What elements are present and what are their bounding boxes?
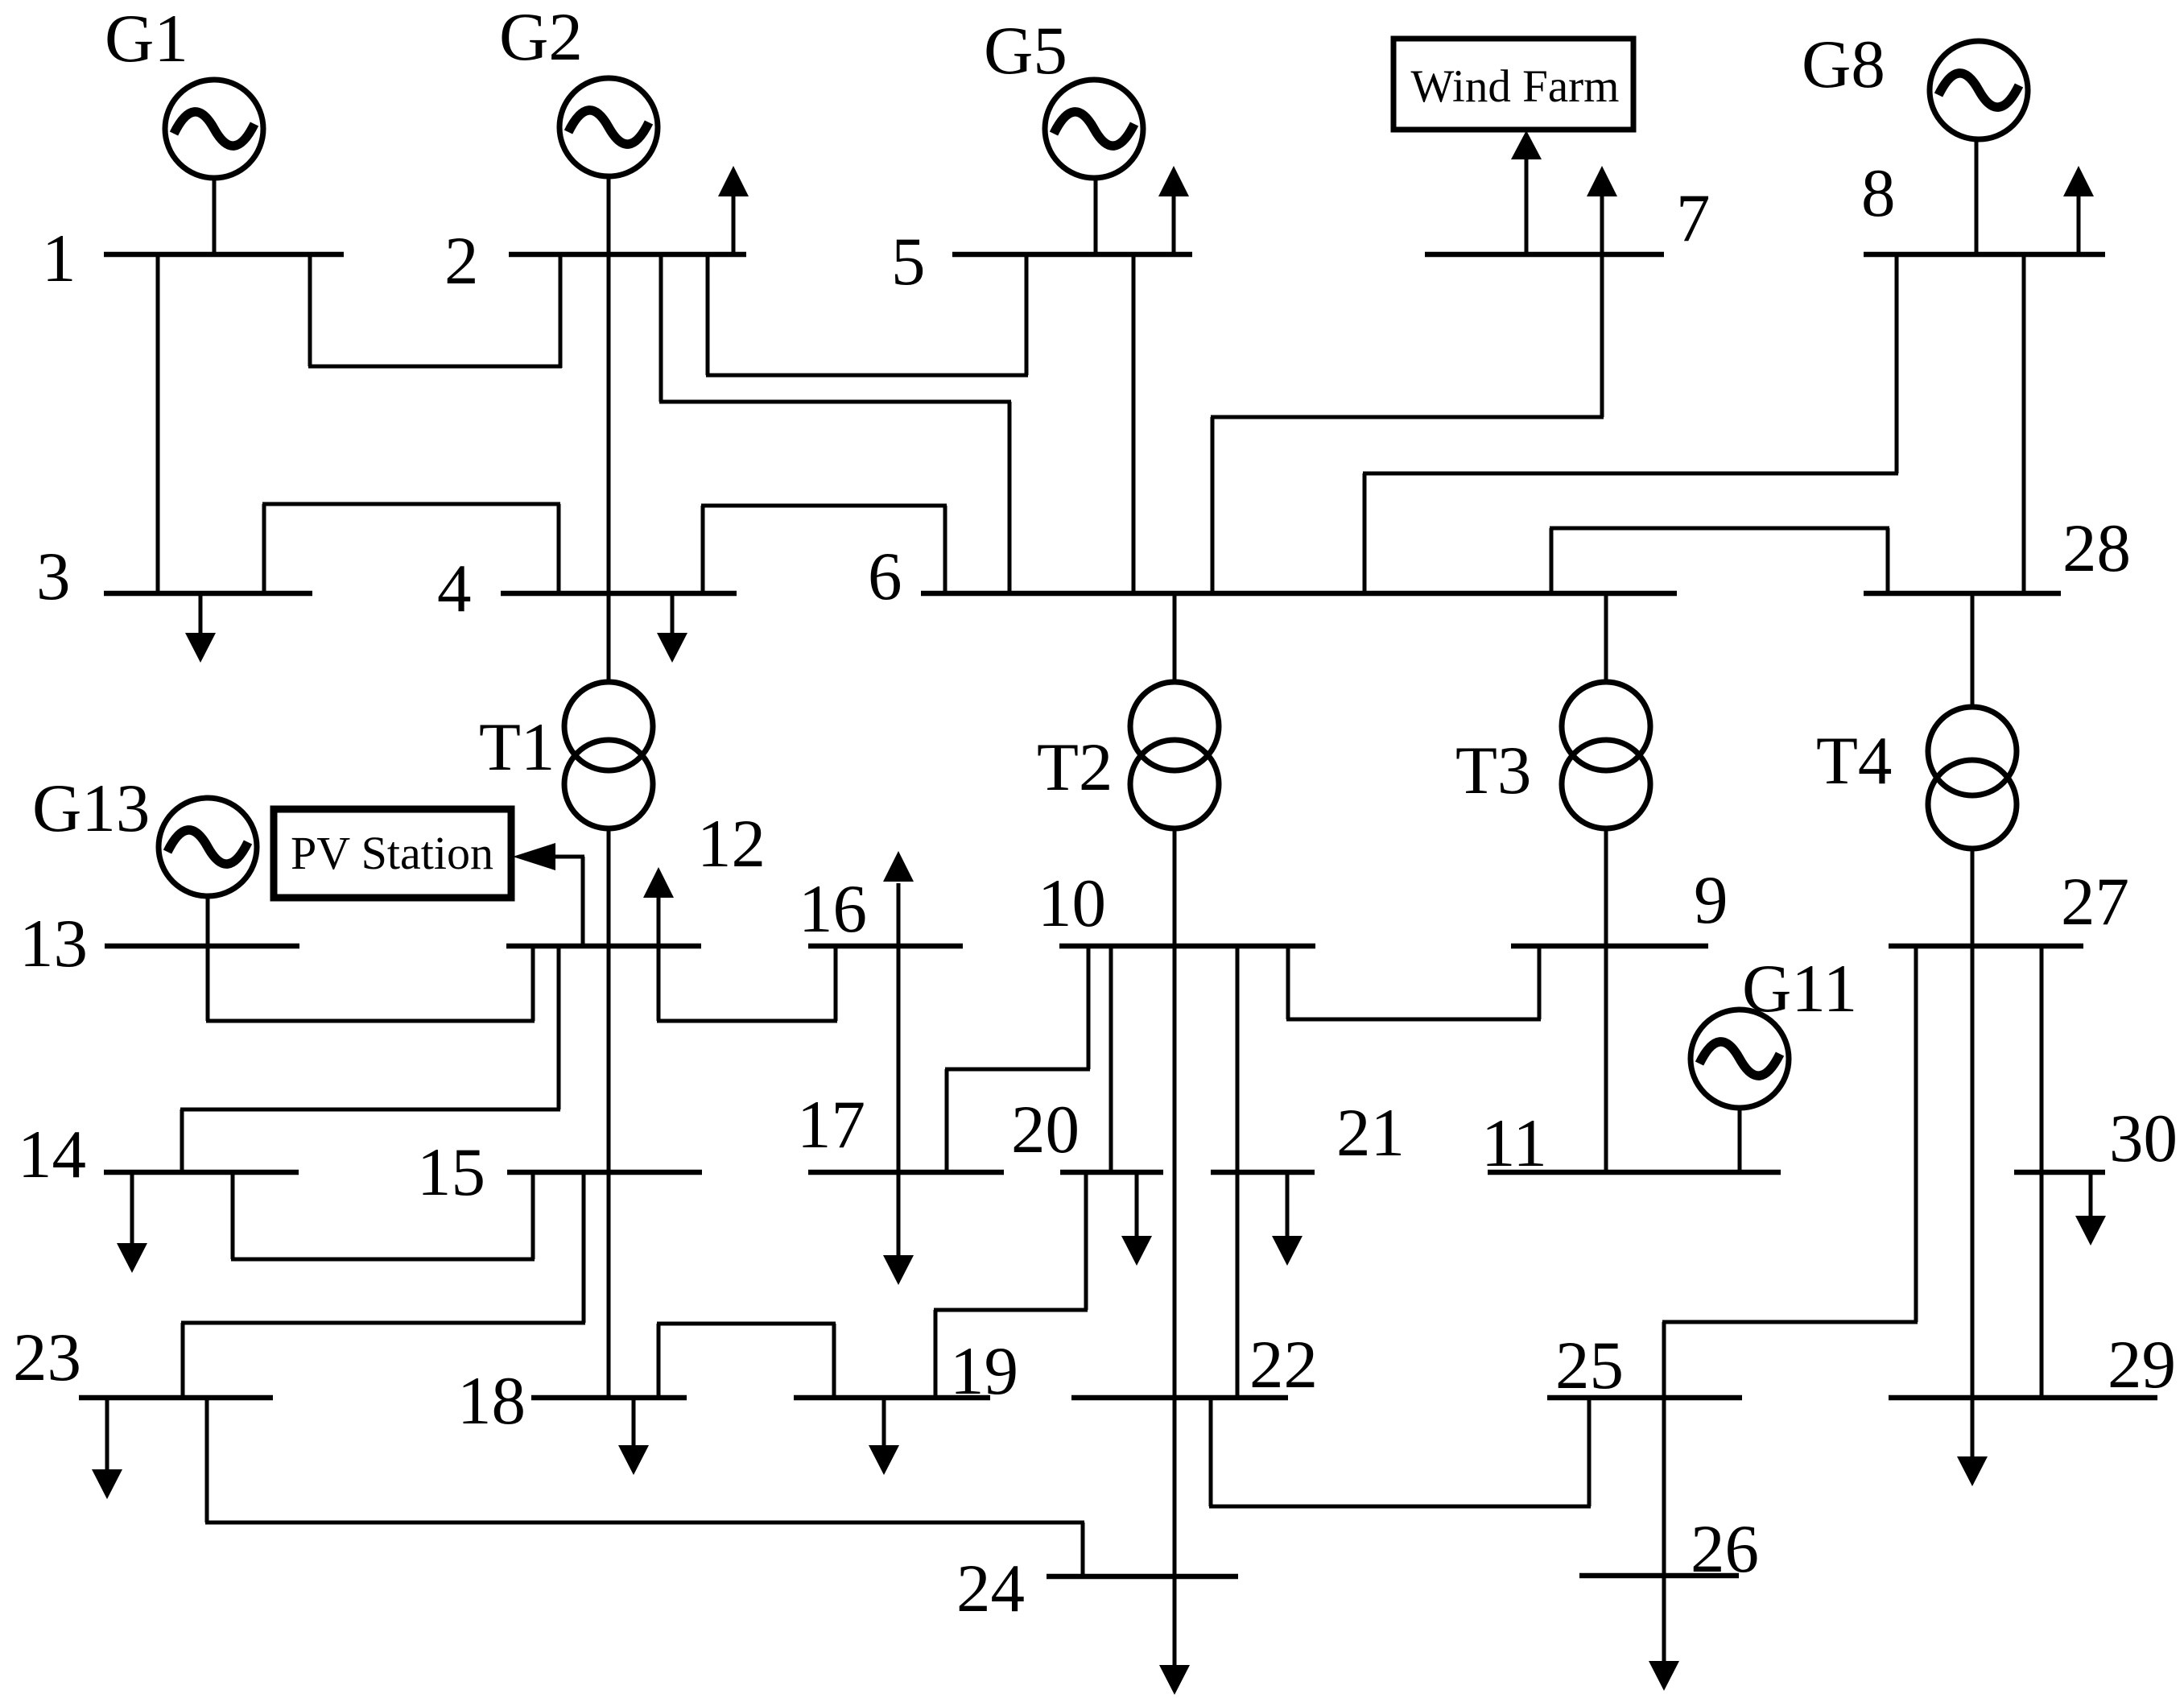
wire line 3-4 xyxy=(262,504,560,593)
svg-text:9: 9 xyxy=(1694,862,1728,938)
svg-text:G5: G5 xyxy=(984,13,1067,89)
bus 28 xyxy=(1864,591,2061,597)
svg-text:15: 15 xyxy=(417,1134,485,1210)
bus 3 xyxy=(104,591,312,597)
bus 5 label "5" xyxy=(891,224,926,300)
wire line 10-21 / line 21-22 xyxy=(1236,946,1240,1398)
load arrow bus 2 xyxy=(718,166,749,254)
bus 30 xyxy=(2014,1170,2105,1175)
load arrow bus 18 xyxy=(618,1398,649,1475)
transformer T2 xyxy=(1130,682,1219,828)
bus 11 label "11" xyxy=(1481,1105,1547,1181)
bus 26 label "26" xyxy=(1691,1511,1759,1587)
wire G13 stem xyxy=(206,895,210,946)
wind farm feed arrow xyxy=(1511,130,1542,254)
G1 label xyxy=(105,1,188,76)
wire line 27-30 / line 30-29 xyxy=(2040,946,2044,1398)
svg-text:6: 6 xyxy=(868,539,902,614)
wire line 12-13 xyxy=(206,946,535,1021)
svg-text:21: 21 xyxy=(1336,1095,1405,1171)
svg-text:4: 4 xyxy=(437,551,472,626)
svg-text:G8: G8 xyxy=(1802,27,1885,102)
generator G2 xyxy=(559,78,658,176)
svg-text:PV Station: PV Station xyxy=(291,827,493,879)
svg-text:30: 30 xyxy=(2109,1101,2178,1176)
load arrow bus 14 xyxy=(117,1172,147,1273)
wire G2 stem / line 2-4 xyxy=(607,176,611,682)
bus 23 label "23" xyxy=(13,1320,81,1395)
bus 16 xyxy=(808,944,963,949)
wire T4 to bus 27 / line 27-29 with load arrow bus 29 xyxy=(1957,849,1988,1486)
transformer T4 xyxy=(1928,707,2017,849)
bus 1 xyxy=(104,252,344,258)
bus 17 label "17" xyxy=(797,1087,865,1163)
wire line 15-23 xyxy=(181,1172,585,1398)
svg-text:2: 2 xyxy=(444,223,479,299)
svg-text:11: 11 xyxy=(1481,1105,1547,1181)
generator G1 xyxy=(165,80,263,178)
wire bus6 to T2 xyxy=(1173,593,1177,682)
wire line 8-28 xyxy=(2022,254,2026,593)
bus 28 label "28" xyxy=(2062,510,2131,586)
bus 3 label "3" xyxy=(36,539,71,614)
bus 19 xyxy=(794,1395,990,1401)
transformer T3 xyxy=(1562,682,1650,828)
wire line 6-28 xyxy=(1550,528,1889,593)
bus 7 xyxy=(1425,252,1664,258)
wire line 2-6 xyxy=(659,254,1011,593)
bus 8 xyxy=(1864,252,2105,258)
Wind Farm label xyxy=(1411,61,1620,112)
svg-text:27: 27 xyxy=(2061,864,2129,940)
wire line 25-26 with load arrow bus 26 xyxy=(1649,1398,1679,1691)
load arrow bus 12 xyxy=(643,867,674,946)
bus 25 xyxy=(1547,1395,1742,1401)
T3 label xyxy=(1455,733,1531,808)
load arrow bus 20 xyxy=(1121,1172,1152,1266)
wire G8 stem xyxy=(1975,138,1979,254)
bus 9 xyxy=(1511,944,1708,949)
svg-text:5: 5 xyxy=(891,224,926,300)
transformer T1 xyxy=(564,682,653,828)
wire line 6-7 xyxy=(1211,254,1604,593)
bus 25 label "25" xyxy=(1555,1328,1624,1403)
svg-text:13: 13 xyxy=(19,906,88,981)
bus 21 label "21" xyxy=(1336,1095,1405,1171)
bus 14 label "14" xyxy=(18,1117,86,1192)
load arrow bus 3 xyxy=(185,593,216,663)
wire line 10-17 xyxy=(945,946,1090,1172)
wire line 20-19 xyxy=(934,1172,1088,1398)
G11 label xyxy=(1742,951,1857,1027)
wire PV feed from bus 12 xyxy=(513,843,584,946)
wire T3 to bus 9 / line 9-11 xyxy=(1604,828,1608,1172)
bus 10 label "10" xyxy=(1038,866,1106,941)
wire line 22-25 xyxy=(1209,1398,1591,1506)
bus 4 label "4" xyxy=(437,551,472,626)
bus 1 label "1" xyxy=(42,221,76,296)
svg-text:G11: G11 xyxy=(1742,951,1857,1027)
wire line 1-3 xyxy=(156,254,160,593)
bus 2 xyxy=(509,252,746,258)
generator G11 xyxy=(1691,1010,1789,1108)
svg-text:12: 12 xyxy=(697,806,766,882)
bus 15 xyxy=(507,1170,702,1175)
svg-text:G2: G2 xyxy=(499,0,583,75)
load arrow bus 21 xyxy=(1272,1172,1303,1266)
bus 7 label "7" xyxy=(1676,180,1711,256)
wire T2 line to bus 10/22/24 with load arrow bus 24 xyxy=(1159,828,1190,1695)
bus 15 label "15" xyxy=(417,1134,485,1210)
T4 label xyxy=(1816,723,1892,799)
load arrow bus 19 xyxy=(869,1398,899,1475)
PV Station box xyxy=(274,809,511,898)
wire line 9-10 xyxy=(1286,946,1541,1019)
bus 16 label "16" xyxy=(799,871,867,947)
svg-text:8: 8 xyxy=(1861,155,1896,231)
bus 12 label "12" xyxy=(697,806,766,882)
svg-text:29: 29 xyxy=(2108,1327,2176,1403)
svg-text:3: 3 xyxy=(36,539,71,614)
bus 29 label "29" xyxy=(2108,1327,2176,1403)
svg-text:10: 10 xyxy=(1038,866,1106,941)
bus 29 xyxy=(1889,1395,2157,1401)
bus 19 label "19" xyxy=(950,1333,1018,1409)
wire line 2-5 xyxy=(706,254,1028,375)
wire line 16-17 with load arrows xyxy=(883,851,914,1285)
bus 11 xyxy=(1488,1170,1781,1175)
wire line 1-2 xyxy=(308,254,562,368)
bus 24 xyxy=(1047,1574,1238,1580)
load arrow bus 30 xyxy=(2075,1172,2106,1246)
bus 6 label "6" xyxy=(868,539,902,614)
svg-text:23: 23 xyxy=(13,1320,81,1395)
bus 27 label "27" xyxy=(2061,864,2129,940)
svg-text:16: 16 xyxy=(799,871,867,947)
G8 label xyxy=(1802,27,1885,102)
load arrow bus 7 xyxy=(1587,166,1617,254)
load arrow bus 8 xyxy=(2063,166,2094,254)
Wind Farm box xyxy=(1393,39,1633,130)
wire line 5-6 xyxy=(1132,254,1136,593)
svg-text:1: 1 xyxy=(42,221,76,296)
generator G5 xyxy=(1045,80,1143,178)
G2 label xyxy=(499,0,583,75)
bus 17 xyxy=(808,1170,1004,1175)
generator G8 xyxy=(1930,41,2028,139)
wire bus6 to T3 xyxy=(1604,593,1608,682)
bus 24 label "24" xyxy=(956,1551,1025,1626)
T1 label xyxy=(479,709,555,785)
bus 14 xyxy=(104,1170,299,1175)
bus 20 label "20" xyxy=(1011,1092,1080,1167)
wire line 18-19 xyxy=(657,1324,836,1398)
bus 4 xyxy=(501,591,737,597)
svg-text:7: 7 xyxy=(1676,180,1711,256)
svg-text:19: 19 xyxy=(950,1333,1018,1409)
svg-text:T2: T2 xyxy=(1037,729,1113,805)
bus 18 xyxy=(531,1395,687,1401)
svg-text:G1: G1 xyxy=(105,1,188,76)
wire line 12-16 xyxy=(657,946,837,1021)
bus 5 xyxy=(952,252,1192,258)
svg-text:20: 20 xyxy=(1011,1092,1080,1167)
load arrow bus 23 xyxy=(92,1398,122,1499)
load arrow bus 4 xyxy=(657,593,687,663)
wire line 25-27 xyxy=(1662,946,1918,1398)
wire line 12-14 xyxy=(180,946,560,1172)
bus 2 label "2" xyxy=(444,223,479,299)
wire line 23-24 xyxy=(205,1398,1084,1576)
bus 21 xyxy=(1211,1170,1315,1175)
svg-text:Wind Farm: Wind Farm xyxy=(1411,61,1620,112)
svg-text:24: 24 xyxy=(956,1551,1025,1626)
bus 6 xyxy=(921,591,1677,597)
svg-text:G13: G13 xyxy=(32,771,150,846)
bus 27 xyxy=(1889,944,2083,949)
bus 12 xyxy=(506,944,701,949)
bus 9 label "9" xyxy=(1694,862,1728,938)
bus 22 xyxy=(1071,1395,1288,1401)
bus 8 label "8" xyxy=(1861,155,1896,231)
wire G5 stem xyxy=(1094,177,1098,254)
svg-text:28: 28 xyxy=(2062,510,2131,586)
svg-text:25: 25 xyxy=(1555,1328,1624,1403)
wire line 10-20 xyxy=(1109,946,1113,1172)
bus 13 xyxy=(105,944,299,949)
svg-text:17: 17 xyxy=(797,1087,865,1163)
wire bus28 to T4 xyxy=(1971,593,1975,707)
T2 label xyxy=(1037,729,1113,805)
G5 label xyxy=(984,13,1067,89)
bus 30 label "30" xyxy=(2109,1101,2178,1176)
svg-text:T3: T3 xyxy=(1455,733,1531,808)
PV Station label xyxy=(291,827,493,879)
wire line 4-6 xyxy=(701,506,947,593)
svg-text:T4: T4 xyxy=(1816,723,1892,799)
wire line 14-15 xyxy=(231,1172,535,1259)
svg-text:18: 18 xyxy=(457,1363,526,1439)
svg-text:22: 22 xyxy=(1249,1327,1318,1403)
bus 22 label "22" xyxy=(1249,1327,1318,1403)
load arrow bus 5 xyxy=(1158,166,1189,254)
wire T1 to bus 12 / line 12-15 / line 15-18 xyxy=(607,828,611,1398)
wire G11 stem xyxy=(1738,1107,1742,1172)
bus 23 xyxy=(79,1395,273,1401)
generator G13 xyxy=(159,798,257,896)
svg-text:T1: T1 xyxy=(479,709,555,785)
bus 13 label "13" xyxy=(19,906,88,981)
wire line 6-8 xyxy=(1363,254,1898,593)
bus 20 xyxy=(1060,1170,1163,1175)
bus 26 xyxy=(1579,1573,1739,1579)
wire G1 stem xyxy=(213,177,217,254)
bus 10 xyxy=(1059,944,1315,949)
svg-text:26: 26 xyxy=(1691,1511,1759,1587)
bus 18 label "18" xyxy=(457,1363,526,1439)
svg-text:14: 14 xyxy=(18,1117,86,1192)
G13 label xyxy=(32,771,150,846)
